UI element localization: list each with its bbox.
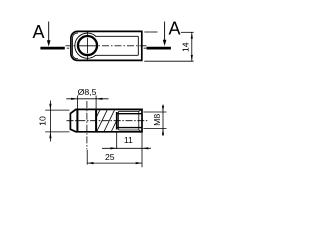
dim 10 extension lines (45, 110, 69, 132)
top view right end chamfer line (137, 36, 139, 55)
hole gap right edge (thick) (95, 109, 97, 131)
section arrow right (163, 22, 167, 47)
dim 11 extension line right / 25 right (part edge extended) (141, 132, 143, 168)
svg-text:M8: M8 (152, 114, 162, 126)
dim M8 extension lines (144, 112, 167, 129)
right end corner chamfer diagonals (139, 109, 142, 131)
svg-text:A: A (33, 22, 45, 42)
top view body line upper (95, 35, 138, 37)
right end chamfer line (138, 111, 140, 130)
dim 10 line with outside arrows (49, 101, 51, 142)
thread major line bottom (119, 129, 139, 131)
bottom view horizontal centerline (67, 120, 148, 122)
dim 14 extension line bottom (144, 60, 193, 62)
dim 11 extension line left (116, 132, 118, 149)
svg-text:A: A (169, 19, 181, 39)
thread end line (118, 111, 120, 130)
hole gap left edge (thick) (76, 109, 78, 131)
thread minor line top (thick) (117, 113, 142, 115)
top view body line lower (95, 54, 138, 56)
thread hole bottom (thick) (116, 112, 118, 130)
thread minor line bottom (thick) (117, 127, 142, 129)
svg-text:25: 25 (105, 152, 115, 162)
dim O8,5 extension lines (77, 96, 96, 110)
svg-text:10: 10 (38, 116, 48, 126)
dim 25 line with inside arrows (87, 162, 142, 164)
section arrow left (47, 22, 51, 47)
top view outline (71, 31, 142, 60)
cutting line thin tail left (67, 47, 69, 49)
cutting line thin tail right (144, 47, 147, 49)
thread major line top (119, 110, 139, 112)
bottom view vertical centerline (86, 101, 88, 150)
dim 11 line with outside arrows (102, 147, 151, 149)
top view vertical centerline (86, 32, 88, 61)
top view eye boss arc (75, 33, 96, 58)
section cut thick line left (40, 47, 64, 50)
dim 14 extension line top (144, 31, 193, 33)
svg-text:11: 11 (124, 135, 133, 145)
dim 14 line (191, 32, 193, 61)
svg-text:14: 14 (180, 42, 190, 52)
dim O8,5 line with outside arrows (66, 98, 108, 100)
dim 25 extension line left (hole centre) (86, 150, 88, 165)
section cut thick line right (147, 47, 171, 50)
top view horizontal centerline (66, 45, 147, 47)
hatching of web (89, 109, 129, 132)
dim M8 line with outside arrows (162, 105, 164, 137)
top view left chamfer inner contour (72, 33, 78, 59)
svg-text:Ø8,5: Ø8,5 (78, 87, 97, 97)
hole circle O8.5 (78, 36, 97, 55)
section outline (70, 109, 142, 131)
